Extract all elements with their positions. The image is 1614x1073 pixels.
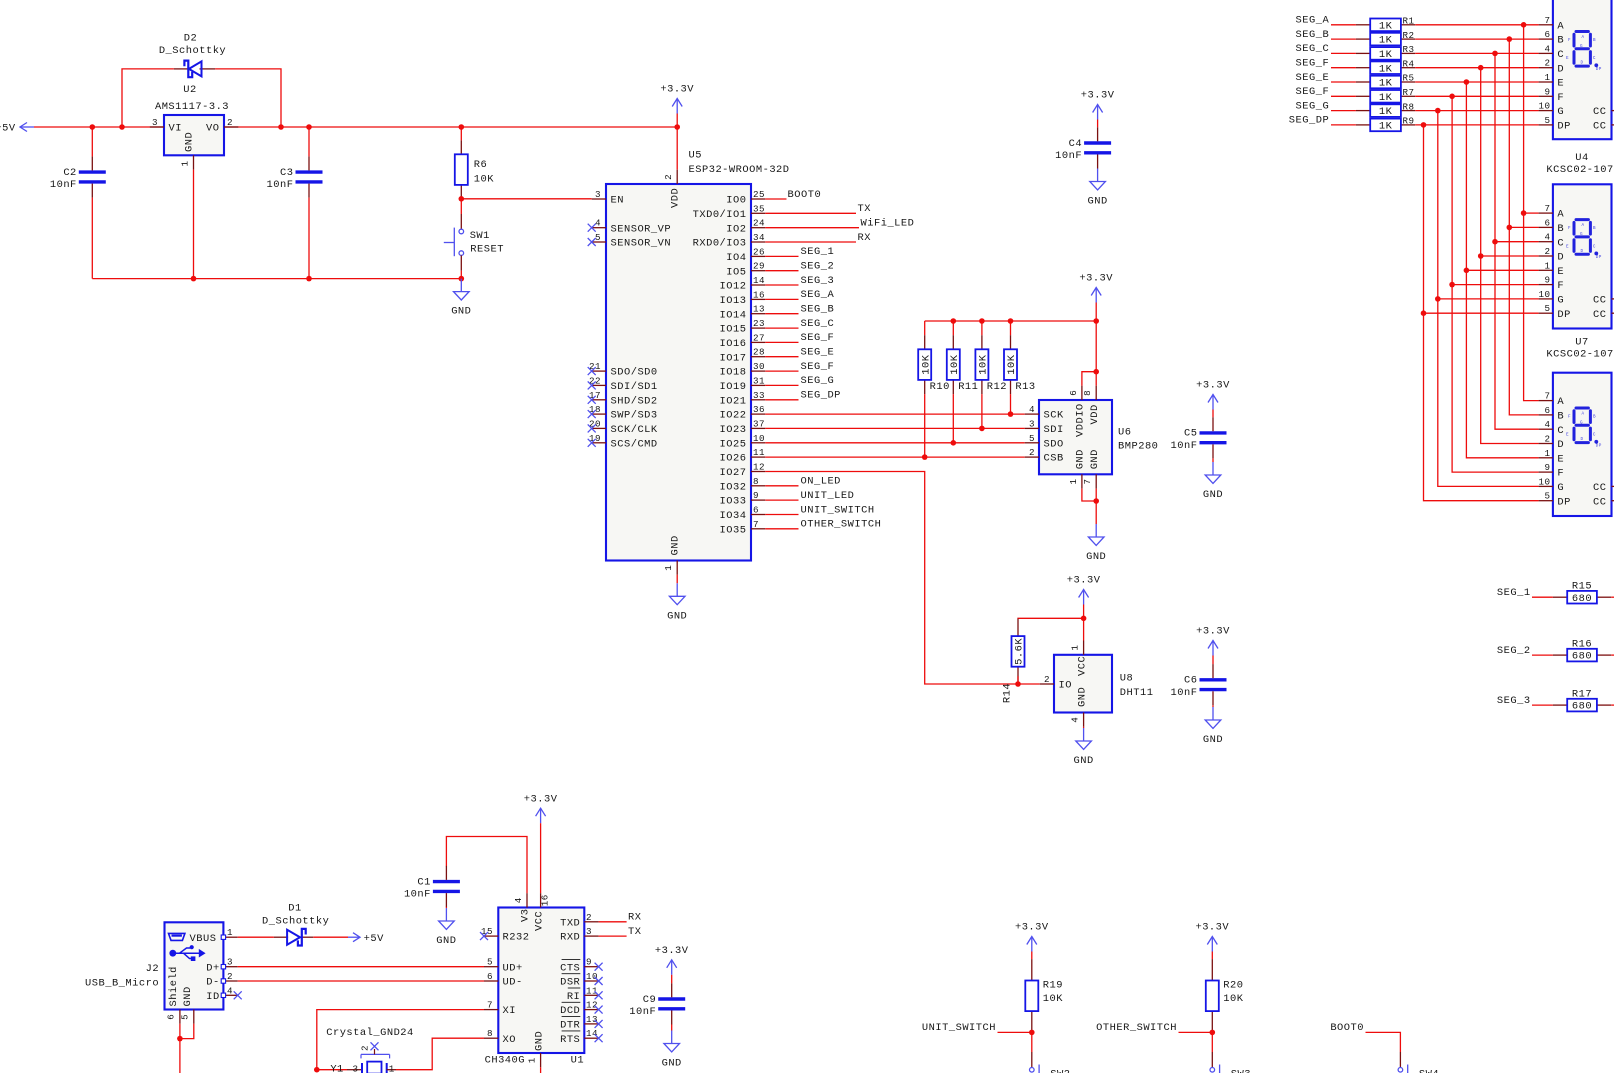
svg-text:R20: R20 (1223, 980, 1243, 992)
svg-text:10: 10 (753, 433, 765, 444)
wire IO stub wire (1018, 683, 1040, 685)
ground GND (1096,524) (1086, 524, 1106, 563)
U5 pin IO27 (720, 462, 766, 480)
U5 pin SWP/SD3 (nc) (588, 404, 658, 422)
U5 pin IO13 (720, 289, 766, 307)
wire seg SEG_B (765, 313, 798, 315)
svg-text:GND: GND (670, 535, 682, 555)
svg-text:12: 12 (586, 1000, 598, 1011)
svg-text:11: 11 (586, 985, 598, 996)
svg-text:SEG_3: SEG_3 (801, 275, 835, 287)
svg-text:V3: V3 (520, 909, 532, 922)
svg-text:5: 5 (487, 957, 493, 968)
wire RXD-TX (599, 935, 627, 937)
svg-text:10: 10 (1538, 476, 1550, 487)
junction R11 to pin row (951, 440, 957, 446)
svg-text:CSB: CSB (1044, 453, 1064, 465)
wire C1 bottom (445, 907, 447, 908)
svg-text:C9: C9 (643, 994, 656, 1006)
svg-text:VBUS: VBUS (190, 933, 217, 945)
svg-text:+5V: +5V (364, 933, 384, 945)
wire GND rail (92, 278, 461, 280)
wire SEG_F in (1331, 67, 1356, 69)
junction SEG_F bus top (1478, 65, 1484, 71)
U5 pin IO21 (720, 390, 766, 408)
svg-text:IO18: IO18 (720, 367, 747, 379)
svg-text:D_Schottky: D_Schottky (262, 916, 329, 928)
svg-text:DSR: DSR (560, 977, 580, 989)
junction R14/IO (1015, 681, 1021, 687)
svg-text:R5: R5 (1403, 73, 1415, 84)
svg-text:RESET: RESET (470, 244, 504, 256)
U5 pin IO34 (720, 505, 766, 523)
svg-text:24: 24 (753, 218, 765, 229)
svg-text:E: E (1566, 433, 1569, 438)
svg-text:+3.3V: +3.3V (660, 84, 694, 96)
ground GND (677,583) (667, 583, 687, 622)
svg-text:8: 8 (753, 476, 759, 487)
resistor R10 10K (918, 321, 950, 457)
junction SEG_A bus mid (1521, 210, 1527, 216)
svg-text:3: 3 (595, 189, 601, 200)
wire seg SEG_F (765, 341, 798, 343)
sensor U8 DHT11 (1040, 641, 1154, 727)
wire segment bus G (1438, 111, 1539, 487)
wire R11 top (952, 321, 954, 335)
svg-text:F: F (1568, 415, 1571, 420)
svg-text:F: F (1557, 92, 1564, 104)
wire resistor rail (925, 320, 1096, 322)
svg-text:1K: 1K (1379, 78, 1393, 90)
svg-text:10nF: 10nF (629, 1006, 656, 1018)
wire VDD wire (676, 127, 678, 170)
U5 pin IO0 (726, 189, 765, 207)
svg-text:4: 4 (1544, 232, 1550, 243)
junction gnd pins (1093, 498, 1099, 504)
svg-text:R1: R1 (1403, 16, 1415, 27)
svg-text:SDO: SDO (1044, 438, 1064, 450)
svg-text:G: G (1557, 482, 1564, 494)
svg-text:35: 35 (753, 203, 765, 214)
svg-text:D: D (1580, 249, 1583, 254)
wire R12 top (981, 321, 983, 335)
svg-text:F: F (1568, 38, 1571, 43)
svg-text:RI: RI (567, 991, 580, 1003)
connector J2 USB_B_Micro (85, 922, 242, 1024)
wire C1 elbow (446, 837, 527, 894)
svg-text:B: B (1593, 38, 1596, 43)
svg-text:B: B (1557, 35, 1564, 47)
svg-text:10K: 10K (1223, 993, 1243, 1005)
svg-text:GND: GND (1087, 196, 1107, 208)
svg-text:7: 7 (487, 1000, 493, 1011)
wire R15 out (1611, 596, 1614, 598)
wire R14 bottom (1017, 676, 1019, 684)
sensor U6 BMP280 (1025, 386, 1159, 489)
svg-text:4: 4 (1029, 404, 1035, 415)
svg-text:VCC: VCC (1076, 656, 1088, 676)
svg-text:5: 5 (1544, 115, 1550, 126)
wire branch display2 C (1495, 241, 1539, 243)
svg-text:SEG_DP: SEG_DP (1289, 115, 1329, 127)
svg-text:VI: VI (169, 123, 182, 135)
resistor R8 1K (1356, 101, 1415, 118)
svg-text:D: D (1580, 61, 1583, 66)
svg-text:6: 6 (487, 971, 493, 982)
svg-text:GND: GND (182, 986, 194, 1006)
junction VDD/rail (674, 124, 680, 130)
wire segment bus F (1452, 96, 1539, 472)
svg-text:10nF: 10nF (1055, 150, 1082, 162)
svg-text:IO32: IO32 (720, 481, 747, 493)
svg-text:CC: CC (1593, 496, 1606, 508)
svg-text:D2: D2 (184, 32, 197, 44)
svg-text:BMP280: BMP280 (1118, 441, 1158, 453)
wire XI to crystal (317, 1069, 347, 1071)
svg-text:8: 8 (487, 1028, 493, 1039)
U5 pin IO19 (720, 375, 766, 393)
svg-text:10K: 10K (1043, 993, 1063, 1005)
svg-text:1: 1 (663, 565, 674, 571)
svg-text:Shield: Shield (168, 966, 180, 1006)
svg-text:IO0: IO0 (726, 195, 746, 207)
svg-text:7: 7 (1082, 478, 1093, 484)
U5 pin IO2 (726, 218, 765, 236)
U5 pin IO16 (720, 332, 766, 350)
wire DHT gnd (1083, 727, 1085, 728)
svg-text:C1: C1 (417, 876, 430, 888)
svg-text:10nF: 10nF (1171, 440, 1198, 452)
U5 pin SHD/SD2 (nc) (588, 390, 658, 408)
svg-text:B: B (1593, 415, 1596, 420)
svg-text:DP: DP (1596, 255, 1602, 260)
mcu U5 ESP32-WROOM-32D (606, 150, 790, 575)
svg-text:R16: R16 (1572, 638, 1592, 650)
svg-text:WiFi_LED: WiFi_LED (861, 218, 915, 230)
svg-text:SENSOR_VN: SENSOR_VN (611, 238, 672, 250)
svg-text:5: 5 (1029, 433, 1035, 444)
resistor R2 1K (1356, 30, 1415, 47)
wire C6 bottom (1212, 705, 1214, 707)
wire C4 top (1097, 120, 1099, 128)
wire +5V rail (34, 126, 677, 128)
svg-text:F: F (1557, 280, 1564, 292)
wire branch display2 B (1509, 226, 1538, 228)
svg-text:GND: GND (1075, 449, 1087, 469)
junction R12 to pin row (979, 426, 985, 432)
svg-text:TXD0/IO1: TXD0/IO1 (693, 209, 747, 221)
wire TX (765, 212, 856, 214)
svg-text:A: A (1581, 223, 1584, 228)
svg-text:2: 2 (1544, 58, 1550, 69)
svg-text:R7: R7 (1403, 87, 1415, 98)
svg-text:1K: 1K (1379, 49, 1393, 61)
wire XO wire (396, 1038, 484, 1070)
svg-text:R11: R11 (958, 381, 978, 393)
svg-text:4: 4 (227, 985, 233, 996)
svg-text:680: 680 (1572, 651, 1592, 663)
wire R11 bottom (952, 394, 954, 443)
svg-text:SEG_2: SEG_2 (1497, 645, 1531, 657)
svg-text:1: 1 (527, 1057, 538, 1063)
wire R14 top rail (1018, 617, 1084, 619)
svg-text:10K: 10K (920, 354, 932, 374)
svg-text:9: 9 (753, 490, 759, 501)
U5 pin SENSOR_VN (nc) (588, 232, 671, 250)
svg-text:SEG_B: SEG_B (1296, 29, 1330, 41)
svg-text:SEG_DP: SEG_DP (801, 390, 841, 402)
wire TXD-RX (599, 921, 627, 923)
svg-text:+3.3V: +3.3V (1196, 626, 1230, 638)
wire segment bus E (1466, 82, 1538, 458)
svg-text:C: C (1593, 56, 1596, 61)
wire OTHER_SWITCH wire (1179, 1031, 1213, 1033)
diode D2 (Schottky) (159, 32, 226, 77)
svg-text:U2: U2 (183, 84, 196, 96)
svg-text:RX: RX (858, 232, 872, 244)
wire R7 out (1415, 95, 1538, 97)
svg-text:SEG_F: SEG_F (801, 332, 835, 344)
wire SW1 top (460, 199, 462, 214)
wire BMP vdd vertical (1095, 303, 1097, 386)
svg-text:B: B (1557, 411, 1564, 423)
svg-text:CC: CC (1593, 482, 1606, 494)
svg-text:IO33: IO33 (720, 496, 747, 508)
svg-text:U6: U6 (1118, 427, 1131, 439)
svg-text:26: 26 (753, 246, 765, 257)
wire R3 out (1415, 52, 1538, 54)
svg-text:D_Schottky: D_Schottky (159, 45, 226, 57)
svg-text:SEG_F: SEG_F (1296, 58, 1330, 70)
wire VCC wire (540, 823, 542, 893)
svg-text:3: 3 (227, 957, 233, 968)
svg-text:C3: C3 (280, 167, 293, 179)
wire R19 top (1031, 952, 1033, 960)
svg-text:UNIT_SWITCH: UNIT_SWITCH (801, 504, 875, 516)
wire seg SEG_DP (765, 399, 798, 401)
wire segment bus B (1509, 39, 1538, 415)
svg-text:C2: C2 (63, 167, 76, 179)
svg-text:3: 3 (352, 1063, 358, 1073)
svg-text:GND: GND (1073, 755, 1093, 767)
svg-text:R10: R10 (930, 381, 950, 393)
wire EN wire (461, 198, 591, 200)
svg-text:UNIT_SWITCH: UNIT_SWITCH (922, 1022, 996, 1034)
svg-text:E: E (1557, 266, 1564, 278)
svg-text:D1: D1 (288, 903, 301, 915)
svg-text:ON_LED: ON_LED (801, 476, 841, 488)
svg-text:C: C (1593, 433, 1596, 438)
svg-text:SW4: SW4 (1419, 1069, 1439, 1073)
svg-text:11: 11 (753, 447, 765, 458)
wire C3 bottom (308, 198, 310, 279)
svg-text:+3.3V: +3.3V (1081, 90, 1115, 102)
wire D1 anode wire (238, 936, 274, 938)
U5 pin SDI/SD1 (nc) (588, 375, 658, 393)
svg-text:RX: RX (628, 912, 642, 924)
power +3.3V (1212,926) (1195, 922, 1229, 952)
svg-text:5: 5 (595, 232, 601, 243)
junction R20/switch (1210, 1030, 1216, 1036)
svg-text:ESP32-WROOM-32D: ESP32-WROOM-32D (689, 164, 790, 176)
wire R4 out (1415, 67, 1538, 69)
svg-text:Crystal_GND24: Crystal_GND24 (326, 1027, 414, 1039)
svg-text:10nF: 10nF (1171, 687, 1198, 699)
svg-text:CTS: CTS (560, 962, 580, 974)
U5 pin RXD0/IO3 (693, 232, 766, 250)
svg-text:27: 27 (753, 332, 765, 343)
U5 pin IO26 (720, 447, 766, 465)
svg-text:VDD: VDD (1089, 404, 1101, 424)
power +3.3V (1096,277) (1079, 273, 1113, 303)
svg-text:SEG_3: SEG_3 (1497, 695, 1531, 707)
svg-text:4: 4 (513, 897, 524, 903)
svg-text:36: 36 (753, 404, 765, 415)
junction (953,321) (951, 318, 957, 324)
svg-text:1: 1 (227, 927, 233, 938)
svg-text:IO17: IO17 (720, 352, 747, 364)
wire SEG_DP in (1331, 124, 1356, 126)
svg-text:C: C (1593, 244, 1596, 249)
wire branch display2 F (1452, 284, 1539, 286)
svg-text:D: D (1557, 439, 1564, 451)
svg-text:DHT11: DHT11 (1120, 687, 1154, 699)
svg-text:DP: DP (1557, 121, 1570, 133)
svg-text:C5: C5 (1184, 428, 1197, 440)
svg-text:VCC: VCC (533, 911, 545, 931)
wire seg SEG_2 (765, 270, 798, 272)
svg-text:4: 4 (1544, 419, 1550, 430)
wire R12 bottom (981, 394, 983, 428)
svg-text:R19: R19 (1043, 980, 1063, 992)
wire SW1 bottom (460, 271, 462, 279)
wire segment bus C (1495, 53, 1539, 429)
svg-text:SDI: SDI (1044, 424, 1064, 436)
wire C5 bottom (1212, 458, 1214, 462)
svg-text:IO27: IO27 (720, 467, 747, 479)
svg-text:VDDIO: VDDIO (1075, 403, 1087, 437)
wire SEG_A in (1331, 24, 1356, 26)
U5 pin IO17 (720, 347, 766, 365)
U5 pin IO12 (720, 275, 766, 293)
wire branch display2 DP (1424, 312, 1539, 314)
junction R19/switch (1029, 1030, 1035, 1036)
wire R2 out (1415, 38, 1538, 40)
svg-text:2: 2 (1544, 246, 1550, 257)
svg-text:DP: DP (1557, 309, 1570, 321)
wire SEG_E in (1331, 81, 1356, 83)
wire R5 out (1415, 81, 1538, 83)
svg-text:VO: VO (206, 123, 219, 135)
svg-text:+3.3V: +3.3V (1067, 575, 1101, 587)
svg-text:7: 7 (753, 519, 759, 530)
wire SEG_2 wire (1532, 654, 1553, 656)
svg-text:1K: 1K (1379, 121, 1393, 133)
svg-text:R8: R8 (1403, 101, 1415, 112)
junction R10 to pin row (922, 454, 928, 460)
svg-text:14: 14 (753, 275, 765, 286)
wire R13 top (1010, 321, 1012, 335)
svg-text:34: 34 (753, 232, 765, 243)
wire net UNIT_SWITCH (765, 514, 798, 516)
junction SEG_E bus top (1464, 79, 1470, 85)
wire C9 bottom (671, 1025, 673, 1031)
svg-text:A: A (1557, 396, 1564, 408)
power +3.3V (1213,384) (1196, 380, 1230, 410)
svg-text:33: 33 (753, 390, 765, 401)
junction D2 left/rail (119, 124, 125, 130)
wire BMP gnd down (1095, 489, 1097, 524)
junction SEG_E bus mid (1464, 268, 1470, 274)
power +5V (D1 out) (313, 933, 384, 945)
resistor R5 1K (1356, 73, 1415, 90)
svg-text:R2: R2 (1403, 30, 1415, 41)
svg-text:E: E (1557, 453, 1564, 465)
wire seg SEG_3 (765, 284, 798, 286)
power label +5V (left edge) (0, 123, 34, 135)
svg-text:GND: GND (1076, 687, 1088, 707)
wire BMP gnd elbow (1082, 489, 1096, 501)
svg-text:G: G (1557, 295, 1564, 307)
svg-text:R4: R4 (1403, 58, 1415, 69)
svg-text:IO15: IO15 (720, 324, 747, 336)
wire J2 shield down (179, 1024, 181, 1073)
junction SEG_C bus top (1492, 51, 1498, 57)
svg-text:G: G (1580, 232, 1583, 237)
svg-text:CC: CC (1593, 121, 1606, 133)
wire WiFi_LED (765, 227, 859, 229)
junction SW1/gnd rail (459, 276, 465, 282)
resistor R3 1K (1356, 44, 1415, 61)
svg-text:1: 1 (389, 1063, 395, 1073)
svg-text:AMS1117-3.3: AMS1117-3.3 (155, 101, 229, 113)
junction SEG_F bus top (1449, 94, 1455, 100)
svg-text:37: 37 (753, 418, 765, 429)
junction C2/rail (90, 124, 96, 130)
svg-text:RXD0/IO3: RXD0/IO3 (693, 238, 747, 250)
wire C6 top (1212, 656, 1214, 665)
wire C3 top (308, 127, 310, 156)
svg-text:3: 3 (586, 926, 592, 937)
svg-text:SHD/SD2: SHD/SD2 (611, 395, 658, 407)
wire IO27 to DHT IO (765, 472, 1018, 685)
svg-text:SEG_A: SEG_A (1296, 15, 1330, 27)
svg-text:DTR: DTR (560, 1020, 580, 1032)
wire branch display2 A (1524, 212, 1539, 214)
svg-text:SDI/SD1: SDI/SD1 (611, 381, 658, 393)
display U4 KCSC02-107 (1538, 152, 1614, 329)
wire segment bus A (1524, 25, 1539, 401)
U5 pin IO25 (720, 433, 766, 451)
svg-text:7: 7 (1544, 203, 1550, 214)
svg-text:6: 6 (1544, 29, 1550, 40)
power +3.3V (1084,579) (1067, 575, 1101, 605)
svg-text:GND: GND (436, 935, 456, 947)
wire BOOT0 to SW4 (1366, 1032, 1401, 1052)
svg-text:GND: GND (184, 132, 196, 152)
svg-text:5: 5 (179, 1014, 190, 1020)
svg-text:G: G (1580, 44, 1583, 49)
svg-text:5.6K: 5.6K (1014, 638, 1026, 665)
svg-text:29: 29 (753, 261, 765, 272)
U5 pin IO5 (726, 261, 765, 279)
svg-text:XI: XI (503, 1005, 516, 1017)
capacitor C2 (50, 156, 106, 197)
svg-text:4: 4 (1544, 43, 1550, 54)
svg-text:VDD: VDD (670, 188, 682, 208)
svg-text:IO4: IO4 (726, 252, 746, 264)
junction SEG_A bus top (1521, 22, 1527, 28)
